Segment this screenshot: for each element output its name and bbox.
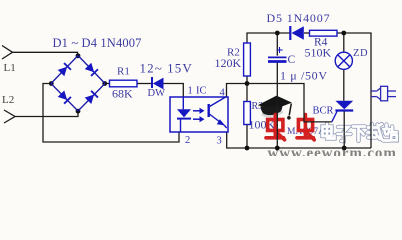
wire R2 top to top rail [247,33,290,84]
svg-text:68K: 68K [112,86,133,100]
svg-text:510K: 510K [305,46,332,60]
diode D2 (upper-right) [85,63,98,76]
wire L1 to bridge top [13,52,78,55]
node bridge top [76,53,81,58]
input arrow L1 [2,46,13,60]
wire triac to bottom rail [343,111,345,148]
watermark white text dian-zi-xia-zai-zhan [323,124,397,141]
node cap bottom rail [275,146,280,151]
diode D3 (lower-left) [58,90,71,103]
svg-text:D5 1N4007: D5 1N4007 [267,11,331,25]
svg-text:12~ 15V: 12~ 15V [140,61,193,76]
watermark red char chong 1 [266,115,285,140]
resistor R1 [110,80,138,87]
diode D5 [290,26,304,40]
watermark red char chong 2 [297,115,314,140]
node bridge bottom [76,109,81,114]
svg-text:BCR: BCR [313,106,334,117]
watermark cap brim highlight [262,111,283,116]
wire opto pin 4 to mid rail [227,84,332,122]
node R2/R3 mid rail [245,81,250,86]
svg-text:www.eeworm.com: www.eeworm.com [268,146,397,157]
plug P [371,86,396,101]
optocoupler IC box [170,97,228,132]
svg-text:DW: DW [148,88,166,99]
watermark graduation cap board [258,96,292,110]
bridge rectifier edges [51,56,105,112]
node R3 bottom rail [245,146,250,151]
node lamp top rail [341,31,346,36]
input arrow L2 [4,110,15,123]
wire R1 to zener [137,83,151,85]
svg-text:1 μ /50V: 1 μ /50V [280,69,328,83]
opto LED [177,97,191,132]
svg-text:3: 3 [217,136,222,147]
resistor R3 [244,102,251,125]
opto light arrows [193,108,205,123]
top rail R4 to right corner [337,33,371,148]
diode D4 (lower-right) [85,91,98,104]
svg-text:1: 1 [188,86,193,97]
svg-text:120K: 120K [215,56,242,70]
watermark cap tassel [289,104,291,116]
zener diode DW [152,77,164,89]
node bridge right [102,81,107,86]
wire bridge right to R1 [105,83,110,85]
svg-text:2: 2 [185,135,190,146]
opto phototransistor [209,97,227,129]
svg-text:D1 ~ D4 1N4007: D1 ~ D4 1N4007 [53,36,142,50]
triac BCR [332,101,353,122]
watermark cap dome [260,106,282,117]
top rail D5 to R4 [304,32,310,34]
svg-text:IC: IC [196,86,207,97]
capacitor C [268,47,287,62]
resistor R4 [310,30,338,36]
resistor R2 [244,43,251,76]
svg-text:R1: R1 [117,66,130,78]
svg-text:L2: L2 [2,94,14,106]
bottom right rail with opto pin 3 [227,132,371,148]
svg-text:C: C [288,54,296,66]
lamp ZD [335,52,352,69]
svg-text:L1: L1 [4,62,16,74]
diode D1 (upper-left) [58,63,71,76]
node cap top rail [275,31,280,36]
wire R3 vertical [246,84,248,149]
node triac bottom rail [342,146,347,151]
svg-text:ZD: ZD [353,48,368,59]
wire cap branch [276,33,278,148]
wire bridge left to bottom-left rail [43,84,179,143]
node bridge left [49,81,54,86]
wire lamp branch [343,33,345,101]
wire zener to opto pin 1 [164,84,184,98]
wire L2 to bridge bottom [15,111,78,117]
